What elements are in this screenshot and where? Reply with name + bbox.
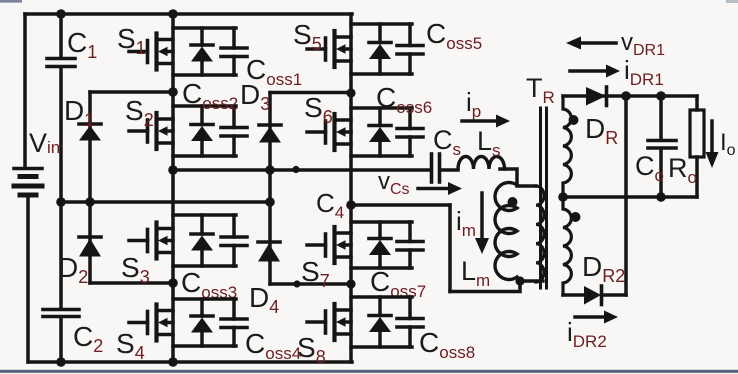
wire D4 to S7-S8 midpoint bbox=[270, 282, 351, 286]
wire blocking loop vertical bbox=[448, 205, 452, 292]
node output rail Co bbox=[656, 91, 666, 101]
transistor S7 (MOSFET) bbox=[307, 227, 351, 263]
capacitor Co bbox=[648, 96, 676, 197]
capacitor Coss5 bbox=[397, 24, 423, 74]
wire blocking loop bottom bbox=[450, 280, 520, 292]
capacitor C1 bbox=[47, 14, 75, 202]
switch cell S8 box wires bbox=[351, 295, 412, 299]
svg-text:iDR2: iDR2 bbox=[567, 317, 607, 351]
svg-text:S1: S1 bbox=[117, 23, 146, 58]
node return small junction bbox=[293, 280, 300, 287]
svg-text:Ls: Ls bbox=[477, 126, 501, 160]
node S7-S8 midpoint bbox=[346, 279, 355, 288]
capacitor Coss3 bbox=[221, 215, 247, 266]
wire right leg vertical S5..S8 bbox=[349, 14, 353, 362]
svg-text:D2: D2 bbox=[58, 252, 88, 287]
node center rail Co bbox=[656, 192, 666, 202]
svg-text:Coss5: Coss5 bbox=[426, 18, 482, 53]
body diode of S3 bbox=[191, 215, 213, 266]
svg-text:vCs: vCs bbox=[378, 168, 410, 198]
svg-text:Coss4: Coss4 bbox=[245, 328, 301, 363]
svg-text:TR: TR bbox=[526, 73, 555, 107]
node output rail DR2 riser bbox=[621, 91, 631, 101]
body diode of S4 bbox=[191, 299, 213, 346]
svg-text:S8: S8 bbox=[297, 332, 326, 367]
node rail1 S2 leg bbox=[168, 165, 178, 175]
node Lm polarity dot bbox=[508, 197, 518, 207]
svg-text:S2: S2 bbox=[125, 95, 154, 130]
wire mid rail (cap midpoint to D3/D4) bbox=[61, 200, 270, 204]
svg-text:DR2: DR2 bbox=[582, 251, 625, 286]
svg-text:Coss8: Coss8 bbox=[419, 327, 475, 362]
battery Vin bbox=[14, 169, 42, 363]
svg-text:S6: S6 bbox=[304, 92, 333, 127]
svg-text:Coss2: Coss2 bbox=[182, 78, 238, 113]
node C4 junction bbox=[346, 200, 356, 210]
node top rail C1 bbox=[56, 9, 66, 19]
body diode of S7 bbox=[369, 222, 391, 268]
arrow im (down) bbox=[475, 193, 489, 254]
transformer secondary top winding bbox=[563, 96, 571, 197]
node bottom rail S4 leg bbox=[168, 357, 178, 367]
transistor S8 (MOSFET) bbox=[307, 304, 351, 340]
svg-text:Coss6: Coss6 bbox=[376, 82, 432, 117]
body diode of S8 bbox=[369, 297, 391, 347]
node center tap bbox=[558, 192, 568, 202]
wire center tap rail bbox=[563, 195, 697, 199]
switch cell S5 box wires bbox=[351, 22, 412, 26]
capacitor Coss2 bbox=[221, 106, 247, 156]
node secondary top polarity dot bbox=[569, 115, 579, 125]
transistor S1 (MOSFET) bbox=[129, 34, 173, 70]
wire DR2 cathode riser bbox=[624, 96, 628, 295]
svg-text:C2: C2 bbox=[73, 321, 103, 356]
border bottom bbox=[0, 370, 738, 373]
diode D2 bbox=[79, 237, 101, 257]
svg-text:Io: Io bbox=[720, 129, 736, 159]
switch cell S4 box wires bbox=[173, 297, 236, 301]
capacitor Coss8 bbox=[397, 297, 423, 347]
wire D3 top to S5-S6 midpoint bbox=[270, 91, 351, 95]
body diode of S2 bbox=[191, 106, 213, 156]
svg-text:DR: DR bbox=[585, 113, 618, 148]
node S3-S4 midpoint bbox=[168, 278, 178, 288]
node rail1 small junction bbox=[292, 166, 299, 173]
svg-text:ip: ip bbox=[466, 87, 481, 121]
arrow iDR1 (right) bbox=[570, 65, 620, 78]
switch cell S1 box wires bbox=[173, 26, 236, 30]
node mid rail end D3/D4 bbox=[265, 197, 275, 207]
transistor S6 (MOSFET) bbox=[307, 114, 351, 150]
transformer secondary bottom winding bbox=[563, 197, 571, 295]
node secondary bottom polarity dot bbox=[571, 212, 581, 222]
svg-text:C1: C1 bbox=[67, 27, 97, 62]
wire left input rail bbox=[23, 14, 27, 167]
node top rail S1 leg bbox=[168, 9, 178, 19]
wire D2 bottom to return bbox=[90, 281, 173, 285]
svg-text:Vin: Vin bbox=[29, 128, 60, 158]
svg-text:C4: C4 bbox=[316, 188, 344, 222]
inductor Ls bbox=[458, 157, 505, 170]
svg-text:iDR1: iDR1 bbox=[624, 55, 664, 89]
transistor S3 (MOSFET) bbox=[129, 223, 173, 259]
body diode of S6 bbox=[369, 108, 391, 156]
node bottom rail C2 bbox=[56, 357, 66, 367]
node capacitor midpoint bbox=[56, 197, 66, 207]
arrow Io (down) bbox=[706, 121, 719, 168]
resistor Ro bbox=[690, 96, 704, 197]
capacitor Coss7 bbox=[397, 222, 423, 268]
node S1-S2 midpoint bbox=[168, 87, 178, 97]
node D1-D2 junction bbox=[85, 197, 95, 207]
switch cell S7 box wires bbox=[351, 220, 412, 224]
capacitor Coss4 bbox=[221, 299, 247, 346]
svg-text:Lm: Lm bbox=[461, 256, 490, 290]
wire C4 node to blocking loop (right) bbox=[353, 203, 450, 207]
arrow iDR2 (right) bbox=[575, 311, 618, 324]
svg-text:D4: D4 bbox=[249, 282, 279, 317]
arrow vDR1 (left) bbox=[566, 37, 616, 50]
capacitor Cs (series resonant) bbox=[432, 154, 459, 182]
transistor S5 (MOSFET) bbox=[307, 31, 351, 67]
arrow ip (right) bbox=[462, 115, 510, 128]
diode D1 bbox=[79, 124, 101, 141]
wire secondary bottom to DR2 bbox=[563, 293, 584, 297]
diode DR1 bbox=[586, 87, 607, 106]
wire Ls to Lm corner bbox=[500, 169, 517, 185]
svg-text:im: im bbox=[456, 206, 476, 240]
wire bottom rail bbox=[28, 360, 352, 364]
transformer TR primary winding bbox=[517, 186, 544, 282]
svg-text:S3: S3 bbox=[121, 252, 150, 287]
capacitor C2 bbox=[43, 202, 79, 362]
wire left leg vertical S1..S4 bbox=[171, 14, 175, 362]
diode D4 bbox=[258, 242, 280, 262]
svg-text:Cs: Cs bbox=[433, 125, 461, 159]
wire S1-S2 midpoint to D1 bbox=[90, 90, 173, 94]
transistor S2 (MOSFET) bbox=[129, 113, 173, 149]
capacitor Coss1 bbox=[221, 28, 247, 75]
wire D3/D4 branch vertical bbox=[268, 93, 272, 285]
svg-text:Coss1: Coss1 bbox=[246, 54, 302, 89]
svg-text:S4: S4 bbox=[116, 328, 145, 363]
transistor S4 (MOSFET) bbox=[129, 305, 173, 341]
border top-right artifact bbox=[726, 0, 738, 3]
arrow vCs (right) bbox=[418, 182, 462, 195]
switch cell S3 box wires bbox=[173, 213, 236, 217]
inductor Lm (magnetizing) bbox=[495, 183, 543, 282]
body diode of S5 bbox=[369, 24, 391, 74]
switch cell S6 box wires bbox=[351, 106, 412, 110]
body diode of S1 bbox=[191, 28, 213, 75]
diode DR2 bbox=[584, 286, 626, 305]
switch cell S2 box wires bbox=[173, 104, 236, 108]
svg-text:Coss3: Coss3 bbox=[181, 267, 237, 302]
wire top rail bbox=[25, 12, 352, 16]
capacitor Coss6 bbox=[397, 108, 423, 156]
wire output top rail bbox=[563, 94, 697, 98]
svg-text:S7: S7 bbox=[301, 256, 330, 291]
wire D1/D2 branch vertical bbox=[88, 92, 92, 283]
node S5-S6 midpoint bbox=[346, 88, 355, 97]
transformer TR core bbox=[541, 108, 547, 288]
node Lm bottom bbox=[515, 276, 524, 285]
wire resonant rail (S2 source to Cs) bbox=[173, 168, 430, 172]
diode D3 bbox=[259, 125, 281, 143]
border top-left artifact bbox=[0, 0, 22, 3]
svg-text:S5: S5 bbox=[293, 19, 322, 54]
node rail1 D3 branch bbox=[265, 165, 275, 175]
